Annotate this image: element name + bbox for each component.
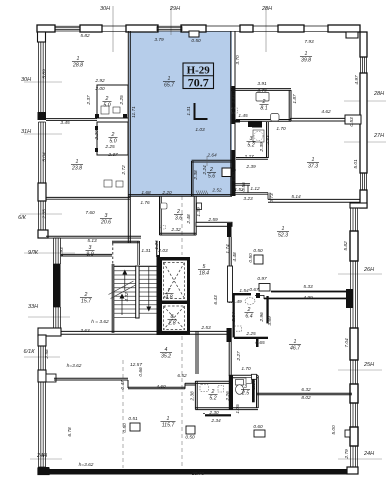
svg-text:0.50: 0.50 [253,248,263,254]
svg-text:2.92: 2.92 [94,78,105,84]
svg-text:29Н: 29Н [169,6,180,12]
svg-text:70.7: 70.7 [188,75,209,89]
svg-text:2.25: 2.25 [119,95,125,106]
svg-text:0.65: 0.65 [255,340,265,346]
svg-text:1.84: 1.84 [251,380,257,390]
svg-text:2.53: 2.53 [200,325,211,331]
svg-text:3.23: 3.23 [243,196,253,202]
svg-text:5: 5 [203,264,206,270]
svg-text:1.87: 1.87 [292,94,298,104]
svg-text:115.7: 115.7 [162,422,176,428]
svg-text:1.68: 1.68 [141,190,151,196]
svg-text:2: 2 [211,389,215,395]
svg-text:0.60: 0.60 [253,424,263,430]
svg-text:1.76: 1.76 [140,200,150,206]
svg-text:6/1К: 6/1К [24,349,36,355]
svg-text:9ЛК: 9ЛК [28,250,39,256]
svg-text:7.04: 7.04 [344,338,350,348]
svg-text:39.8: 39.8 [301,57,311,63]
svg-text:1.93: 1.93 [59,247,65,257]
svg-text:4.97: 4.97 [354,75,360,85]
svg-text:0.50: 0.50 [248,253,254,263]
svg-text:2.34: 2.34 [210,418,221,424]
svg-text:8: 8 [171,314,174,320]
svg-text:2.25: 2.25 [104,144,115,150]
svg-text:2.38: 2.38 [190,391,196,402]
svg-text:1: 1 [294,339,297,345]
svg-text:28Н: 28Н [261,6,272,12]
svg-text:2.30: 2.30 [208,410,219,416]
svg-text:5.14: 5.14 [291,194,301,200]
svg-text:6.52: 6.52 [177,373,187,379]
svg-text:4.62: 4.62 [321,109,331,115]
svg-text:5.82: 5.82 [343,241,349,251]
svg-text:2.35: 2.35 [42,209,48,220]
svg-text:3.79: 3.79 [154,37,164,43]
svg-text:2: 2 [111,132,115,138]
svg-text:2.27: 2.27 [243,154,254,160]
svg-text:7.60: 7.60 [85,210,95,216]
svg-text:1.49: 1.49 [232,299,242,305]
svg-text:8.1: 8.1 [260,105,267,111]
svg-text:2.96: 2.96 [259,312,265,323]
svg-text:2.24: 2.24 [202,165,208,176]
svg-text:2.84: 2.84 [231,312,237,323]
svg-text:1.26: 1.26 [154,240,160,250]
svg-text:2.58: 2.58 [44,349,50,360]
svg-text:25Н: 25Н [363,362,374,368]
svg-text:3: 3 [89,245,92,251]
svg-text:15.7: 15.7 [81,298,92,304]
svg-text:2.38: 2.38 [193,170,199,181]
svg-text:2.20: 2.20 [94,130,100,141]
svg-text:1.05: 1.05 [235,404,241,414]
svg-text:0.50: 0.50 [185,435,195,441]
svg-text:5.33: 5.33 [303,284,313,290]
svg-text:1.90: 1.90 [231,172,237,182]
svg-text:4.32: 4.32 [124,292,130,302]
svg-text:2.79: 2.79 [344,449,350,460]
svg-text:h = 3.62: h = 3.62 [91,319,109,325]
svg-text:26Н: 26Н [363,267,374,273]
svg-text:1: 1 [76,159,79,165]
svg-text:0.50: 0.50 [191,38,201,44]
svg-text:28Н: 28Н [373,91,384,97]
svg-text:5.13: 5.13 [87,238,97,244]
svg-text:h=3.62: h=3.62 [67,363,82,369]
svg-text:24Н: 24Н [36,453,47,459]
svg-text:0.50: 0.50 [122,423,128,433]
svg-text:2.48: 2.48 [186,214,192,225]
svg-text:18.4: 18.4 [199,270,209,276]
svg-text:2: 2 [84,292,88,298]
svg-text:24Н: 24Н [363,451,374,457]
svg-text:2.11: 2.11 [231,94,237,104]
svg-text:1: 1 [282,226,285,232]
svg-text:2.52: 2.52 [211,188,222,194]
svg-text:52.3: 52.3 [278,232,288,238]
svg-text:5.2: 5.2 [209,395,216,401]
svg-text:8.02: 8.02 [301,395,311,401]
svg-text:0.47: 0.47 [120,380,126,390]
svg-text:4.99: 4.99 [303,295,313,301]
svg-text:2.5: 2.5 [241,390,249,396]
svg-text:5.00: 5.00 [331,425,337,435]
svg-text:1.70: 1.70 [241,366,251,372]
svg-text:3.69: 3.69 [267,316,273,326]
svg-text:33Н: 33Н [28,304,38,310]
svg-text:2.59: 2.59 [207,217,218,223]
svg-text:65.7: 65.7 [164,82,175,88]
svg-text:4: 4 [165,347,168,353]
svg-text:1.70: 1.70 [276,126,286,132]
svg-text:0.73: 0.73 [269,193,275,203]
svg-text:5.0: 5.0 [109,138,116,144]
svg-text:5.04: 5.04 [42,152,48,162]
svg-text:4.48: 4.48 [232,252,238,262]
svg-text:0.97: 0.97 [257,276,267,282]
svg-text:1.03: 1.03 [195,127,205,133]
svg-text:2: 2 [247,307,251,313]
svg-text:6/К: 6/К [18,215,27,221]
svg-text:5.01: 5.01 [353,159,359,169]
svg-text:3.70: 3.70 [235,55,241,65]
svg-text:3.6: 3.6 [175,215,182,221]
svg-text:2.72: 2.72 [121,165,127,176]
svg-text:7.93: 7.93 [304,39,314,45]
svg-text:1.12: 1.12 [250,186,260,192]
svg-text:2.37: 2.37 [86,95,92,106]
svg-text:3.63: 3.63 [80,328,90,334]
svg-text:1.31: 1.31 [141,248,151,254]
svg-text:3: 3 [105,213,108,219]
svg-text:2.00: 2.00 [94,86,105,92]
svg-text:20.6: 20.6 [100,219,111,225]
svg-text:1.74: 1.74 [225,244,231,254]
svg-text:1: 1 [167,416,170,422]
svg-text:0.53: 0.53 [349,117,355,127]
svg-text:11.71: 11.71 [131,106,137,118]
svg-text:2.53: 2.53 [265,135,271,146]
svg-text:2: 2 [209,167,213,173]
svg-text:31Н: 31Н [21,129,31,135]
svg-text:1: 1 [312,157,315,163]
svg-text:2.8: 2.8 [167,320,175,326]
svg-text:3.45: 3.45 [60,120,70,126]
svg-text:0.56: 0.56 [241,182,247,192]
svg-text:20.78: 20.78 [191,471,204,477]
svg-text:6.32: 6.32 [301,387,311,393]
svg-text:46.7: 46.7 [290,345,301,351]
svg-text:9.9: 9.9 [86,251,93,257]
svg-text:5.82: 5.82 [80,33,90,39]
svg-text:3.91: 3.91 [257,81,267,87]
svg-text:37.3: 37.3 [308,163,318,169]
svg-text:23.8: 23.8 [71,165,82,171]
svg-text:2.39: 2.39 [259,142,265,153]
svg-text:27Н: 27Н [373,133,384,139]
svg-text:0.66: 0.66 [138,367,144,377]
svg-text:1.45: 1.45 [238,113,248,119]
svg-text:1: 1 [77,56,80,62]
svg-text:2: 2 [262,99,266,105]
svg-text:5.2: 5.2 [247,142,254,148]
svg-text:5.89: 5.89 [42,69,48,79]
svg-text:35.2: 35.2 [161,353,171,359]
svg-text:2.25: 2.25 [245,331,256,337]
svg-text:3: 3 [250,136,253,142]
svg-text:h=3.62: h=3.62 [79,462,94,468]
svg-text:2.26: 2.26 [225,391,231,402]
svg-text:2.32: 2.32 [170,227,181,233]
svg-text:4.8: 4.8 [165,294,172,300]
svg-text:5.6: 5.6 [208,173,215,179]
svg-text:6.43: 6.43 [213,295,219,305]
svg-text:1: 1 [305,51,308,57]
svg-text:28.8: 28.8 [72,62,83,68]
svg-text:30Н: 30Н [21,77,31,83]
svg-text:0.67: 0.67 [249,287,259,293]
svg-text:2.20: 2.20 [161,190,172,196]
svg-text:1.39: 1.39 [196,207,202,217]
svg-text:2.37: 2.37 [107,152,118,158]
svg-text:4.60: 4.60 [156,384,166,390]
svg-text:5.0: 5.0 [103,102,110,108]
svg-text:1: 1 [168,76,171,82]
svg-text:2.27: 2.27 [236,351,242,362]
svg-text:2.64: 2.64 [206,153,217,159]
svg-text:6.78: 6.78 [67,427,73,437]
svg-text:1.54: 1.54 [239,288,249,294]
svg-text:1.31: 1.31 [186,106,192,116]
svg-text:0.51: 0.51 [128,416,138,422]
svg-text:3.79: 3.79 [257,88,267,94]
svg-text:2: 2 [105,96,109,102]
svg-text:6.4: 6.4 [245,313,252,319]
svg-text:30Н: 30Н [100,6,110,12]
svg-text:3: 3 [244,384,247,390]
svg-text:2.39: 2.39 [245,164,256,170]
svg-text:12.57: 12.57 [130,362,142,368]
svg-text:2: 2 [176,209,180,215]
